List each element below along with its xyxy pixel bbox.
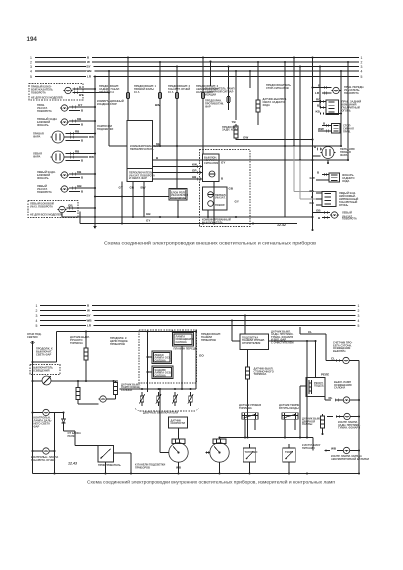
svg-text:RW: RW xyxy=(89,155,94,159)
dashed box: правый боковой указатель поворота xyxy=(29,84,83,101)
wire: GO label xyxy=(195,330,204,389)
connector: правый задний фонарь xyxy=(313,98,362,115)
combination switch box U1 xyxy=(127,121,159,182)
bus line 4 xyxy=(30,69,363,73)
svg-text:5: 5 xyxy=(36,324,38,328)
hazard switch box S2 xyxy=(203,154,226,182)
wire: BW output drop xyxy=(141,182,146,218)
svg-text:ПОВОРОТА: ПОВОРОТА xyxy=(342,217,357,221)
svg-text:GY: GY xyxy=(235,200,239,204)
dashed box: левый боковой указатель поворота xyxy=(28,201,78,218)
wire: lamp8 drop connector xyxy=(62,212,80,224)
label: к панели подсветки приборов xyxy=(135,463,165,470)
svg-text:ХОДА: ХОДА xyxy=(263,103,270,107)
svg-text:ОСВЕЩЕНИЯ: ОСВЕЩЕНИЯ xyxy=(32,368,50,372)
interior lamp box A (двойная рамка) xyxy=(173,333,198,351)
svg-text:АККУМУЛЯТОРНОЙ БАТАРЕИ: АККУМУЛЯТОРНОЙ БАТАРЕИ xyxy=(331,457,369,461)
lamp L8: левый боковой указатель xyxy=(58,203,96,212)
wire: KW to hazard switch xyxy=(153,163,203,168)
svg-text:ХОДА: ХОДА xyxy=(342,179,349,183)
svg-text:И СВЕТА ФАР: И СВЕТА ФАР xyxy=(129,176,147,180)
switch component: датчик выключатель света xyxy=(70,332,90,382)
svg-text:ПЛАФОН ПЕРЕДН.: ПЛАФОН ПЕРЕДН. xyxy=(174,347,198,351)
svg-text:Схема соединений электропровод: Схема соединений электропроводки внутрен… xyxy=(87,479,336,485)
bus line 3 xyxy=(30,65,363,69)
svg-text:ПОВОР.: ПОВОР. xyxy=(215,203,225,207)
svg-text:GO: GO xyxy=(199,354,204,358)
svg-text:ПОВОРОТА: ПОВОРОТА xyxy=(344,91,359,95)
reverse light switch component xyxy=(256,61,287,125)
svg-text:RL: RL xyxy=(329,396,333,400)
svg-text:СКОРОСТИ: СКОРОСТИ xyxy=(171,421,186,425)
svg-text:ТЕМП.: ТЕМП. xyxy=(285,450,293,454)
svg-text:ФАР: ФАР xyxy=(205,105,211,109)
svg-text:BW: BW xyxy=(155,103,160,107)
svg-text:GW: GW xyxy=(243,136,248,140)
svg-text:ОГНЕЙ 10 А: ОГНЕЙ 10 А xyxy=(99,90,114,94)
svg-text:GW: GW xyxy=(310,176,315,180)
wire: turn switch drop to rail xyxy=(207,210,209,218)
gray wire: vertical x=294 xyxy=(293,146,295,192)
svg-text:WB: WB xyxy=(87,69,93,73)
lamp: контрольная лампа аккумулятора WB xyxy=(324,447,369,461)
door switch 3 xyxy=(172,392,177,406)
svg-text:BY: BY xyxy=(79,93,83,97)
svg-text:5: 5 xyxy=(358,324,360,328)
bus line 5 xyxy=(36,324,360,328)
fuse label: предохранитель стоп-сигналов xyxy=(266,83,291,90)
gray wire: horizontal y=199 xyxy=(300,198,322,200)
svg-text:С ОЧИСТИТЕЛЕМ: С ОЧИСТИТЕЛЕМ xyxy=(271,340,294,344)
sender: датчик уровня топлива xyxy=(239,403,261,439)
svg-text:ФАРА: ФАРА xyxy=(340,153,348,157)
dashed box: комбинированный выключатель group xyxy=(200,150,251,227)
wire: B horizontal y=160 xyxy=(153,156,350,161)
svg-text:BY: BY xyxy=(87,65,91,69)
svg-text:RG: RG xyxy=(316,98,321,102)
door switch 4 xyxy=(188,392,193,406)
svg-text:КОНДЕНСАТОР: КОНДЕНСАТОР xyxy=(97,102,117,106)
svg-text:ТОПЛИВО: ТОПЛИВО xyxy=(245,450,258,454)
wire: x=63.5..75 links xyxy=(64,431,99,446)
svg-text:3: 3 xyxy=(30,65,32,69)
lamp L3: правый задний фонарь xyxy=(37,117,95,127)
svg-text:НЕ ДЛЯ ВСЕХ МОДЕЛЕЙ: НЕ ДЛЯ ВСЕХ МОДЕЛЕЙ xyxy=(30,212,62,216)
svg-text:WW: WW xyxy=(318,127,324,131)
svg-text:ПЕРЕКЛЮЧАТЕЛЬ: ПЕРЕКЛЮЧАТЕЛЬ xyxy=(130,147,154,151)
lamp: контрольная лампа RL xyxy=(325,396,359,403)
svg-text:3: 3 xyxy=(358,314,360,318)
rheostat: подсветка приборов xyxy=(33,376,119,385)
svg-text:СВЕТА ФАР: СВЕТА ФАР xyxy=(36,353,52,357)
svg-text:2: 2 xyxy=(36,309,38,313)
wire: rail GB y=217 xyxy=(62,212,313,218)
headlight L: левая фара xyxy=(33,150,95,163)
svg-text:ПРИКУРИВАТЕЛЬ: ПРИКУРИВАТЕЛЬ xyxy=(98,463,121,467)
svg-text:W: W xyxy=(87,309,90,313)
svg-text:ПИТАНИЯ: ПИТАНИЯ xyxy=(302,446,315,450)
dashed box: выключатель освещения xyxy=(30,365,60,375)
bus line 2 xyxy=(36,309,360,313)
svg-text:ЗАДН. ХОДА: ЗАДН. ХОДА xyxy=(222,128,238,132)
meter: указатель топлива xyxy=(243,444,257,475)
svg-text:РЕЛЕ: РЕЛЕ xyxy=(68,434,75,438)
svg-text:12.43: 12.43 xyxy=(68,462,77,466)
wire: vertical x=300 upper xyxy=(299,65,301,160)
bus line 3 xyxy=(36,314,360,318)
svg-text:ДВЕРНЫЕ ВЫКЛЮЧАТЕЛИ: ДВЕРНЫЕ ВЫКЛЮЧАТЕЛИ xyxy=(143,411,178,415)
label: коммутационный конденсатор xyxy=(97,99,124,106)
svg-text:WB: WB xyxy=(87,319,93,323)
svg-text:САЛОНА: САЛОНА xyxy=(334,386,345,390)
svg-text:5: 5 xyxy=(361,75,363,79)
wire: drop x=128 with fuse F1 xyxy=(127,56,130,120)
svg-text:СТОП-СИГНАЛОВ: СТОП-СИГНАЛОВ xyxy=(266,86,289,90)
svg-text:2: 2 xyxy=(30,60,32,64)
speed sensor label box xyxy=(169,417,188,439)
svg-text:ПОВОРОТА: ПОВОРОТА xyxy=(37,190,52,194)
svg-text:ЛАМПЫ: ЛАМПЫ xyxy=(302,422,313,426)
lamp L2: правый указатель поворота xyxy=(37,103,95,113)
svg-text:ГАБАРИТН. ОГНЕЙ: ГАБАРИТН. ОГНЕЙ xyxy=(31,458,55,462)
lamp: левый передний указатель поворота xyxy=(313,209,357,221)
svg-text:РАТУРЫ ВОДЫ: РАТУРЫ ВОДЫ xyxy=(279,406,299,410)
svg-text:ВЫКЛЮЧ.: ВЫКЛЮЧ. xyxy=(333,349,346,353)
door switch 2 xyxy=(156,392,161,406)
svg-text:GY: GY xyxy=(221,161,225,165)
svg-text:СИГНАЛИЗ.: СИГНАЛИЗ. xyxy=(204,161,219,165)
lamp: контрольная лампа габаритов xyxy=(31,448,58,462)
wire: drop x=177 with fuse F3 xyxy=(176,65,179,188)
svg-text:ПОВОРОТА: ПОВОРОТА xyxy=(171,196,186,200)
wire: L-route top of bottom diagram xyxy=(33,330,197,362)
label: продолжение к выключателю xyxy=(36,347,53,357)
meter: указатель температуры xyxy=(283,444,295,475)
svg-text:2: 2 xyxy=(361,60,363,64)
wire: vertical x=285 xyxy=(284,61,286,217)
svg-text:ФАР: ФАР xyxy=(34,425,40,429)
label: огни подсветки xyxy=(27,332,42,339)
wire: drop x=228.5 with fuse xyxy=(227,65,230,110)
svg-text:KW: KW xyxy=(192,163,197,167)
dashed group: лампы салона xyxy=(139,330,197,383)
wires: interior lamp links xyxy=(146,332,183,393)
label: выключатель ламп аварийной сигнализации xyxy=(205,87,235,97)
wire: bottom rail xyxy=(33,472,361,474)
svg-text:4: 4 xyxy=(358,319,360,323)
wire: rail GY y=223.5 xyxy=(80,219,297,225)
svg-text:ТОРМОЗА: ТОРМОЗА xyxy=(70,341,83,345)
gray wire: horizontal y=191.5 xyxy=(294,191,322,193)
svg-text:4: 4 xyxy=(361,69,363,73)
svg-text:ЛЕВЫЙ: ЛЕВЫЙ xyxy=(342,211,352,215)
svg-text:ИЗАЦИИ: ИЗАЦИИ xyxy=(205,93,216,97)
headlight: передняя правая фара xyxy=(313,145,355,164)
svg-text:4: 4 xyxy=(30,69,32,73)
label: датчик включения заднего противотуманного фонаря xyxy=(271,330,294,345)
bus line 2 xyxy=(30,60,363,64)
lamp L6: левый задний фонарь xyxy=(37,170,95,180)
svg-text:GY: GY xyxy=(146,219,150,223)
svg-text:УКАЗ. ПОВОРОТА: УКАЗ. ПОВОРОТА xyxy=(30,205,53,209)
connector: стоп-сигнал правый xyxy=(318,122,354,134)
wire: vertical x=307 xyxy=(306,341,308,438)
wire: horizontal y=437.5 xyxy=(218,436,313,450)
wire: GW horizontal y=139.5 xyxy=(236,136,314,141)
svg-text:САЛОНА: САЛОНА xyxy=(155,373,166,377)
svg-text:САЛОНА: САЛОНА xyxy=(176,340,187,344)
wire: vertical x=294 upper xyxy=(293,56,295,146)
bus line 4 xyxy=(36,319,360,323)
junction dots: left column xyxy=(94,70,110,209)
wire: x=54.5 vertical xyxy=(53,413,63,475)
relay box: прикуриватель xyxy=(98,446,131,475)
svg-text:RW: RW xyxy=(89,135,94,139)
door switch 1 xyxy=(139,392,144,406)
sender: датчик температуры xyxy=(279,403,300,439)
fuse label: предохранитель задних габаритов xyxy=(99,84,120,94)
svg-text:BW: BW xyxy=(141,186,146,190)
component: датчик ручного тормоза C5 xyxy=(246,350,274,438)
lamp: подсветка замка зажигания xyxy=(78,396,116,404)
wire: mid horizontal y=196.5 xyxy=(94,195,169,197)
wire: left collector vertical xyxy=(94,77,96,227)
svg-text:ОТОПИТЕЛЕМ: ОТОПИТЕЛЕМ xyxy=(242,341,260,345)
wire: GY output drop xyxy=(119,182,124,225)
svg-text:ПРАВ.: ПРАВ. xyxy=(343,130,351,134)
svg-text:GY: GY xyxy=(119,186,123,190)
svg-text:W: W xyxy=(87,60,90,64)
rheostat box: реостат подсветки xyxy=(300,340,329,438)
svg-text:194: 194 xyxy=(27,36,38,43)
wire: drop x=250 with fuse xyxy=(249,70,251,88)
fuse label: предохранитель аварийной сигнализации xyxy=(196,84,220,94)
lamp: контрольная лампа задних противотуманных xyxy=(327,413,361,429)
ground: left collector xyxy=(93,226,97,229)
svg-text:СВЕТКИ: СВЕТКИ xyxy=(27,335,38,339)
svg-text:ПРИБОРОВ: ПРИБОРОВ xyxy=(110,342,125,346)
svg-text:WB: WB xyxy=(176,466,182,470)
svg-text:ПРИБОРОВ: ПРИБОРОВ xyxy=(135,465,150,469)
bus line 1 (top) xyxy=(30,56,363,60)
svg-text:CL: CL xyxy=(308,330,312,334)
lamp: подсветка одометра xyxy=(342,357,360,363)
svg-text:1: 1 xyxy=(361,56,363,60)
svg-text:Схема соединений электропровод: Схема соединений электропроводки внешних… xyxy=(104,239,317,245)
svg-text:РЕЛЕ: РЕЛЕ xyxy=(321,373,329,377)
wire: left vertical x=32.5 xyxy=(31,341,34,474)
gauge: тахометр xyxy=(206,438,229,475)
svg-text:ФОНАРЬ: ФОНАРЬ xyxy=(37,176,49,180)
fog lamp relay component YB xyxy=(222,70,239,140)
svg-text:ТОРМОЗА: ТОРМОЗА xyxy=(254,372,267,376)
svg-text:ПОДСВ.: ПОДСВ. xyxy=(314,384,324,388)
gauge: спидометр xyxy=(159,388,188,475)
label: предохранитель панели приборов xyxy=(201,332,221,342)
wire: KB horizontal y=146 xyxy=(153,142,343,147)
bus line 1 (bottom) xyxy=(36,304,360,308)
diode component xyxy=(62,411,81,437)
label: дверные выключатели xyxy=(135,409,199,415)
label: выключатель ламп освещения салона xyxy=(334,380,352,390)
fuse label: предохранитель габаритов xyxy=(168,84,191,94)
fuse label: предохранитель фар xyxy=(134,84,157,94)
svg-text:RG: RG xyxy=(310,189,315,193)
svg-text:ФАРА: ФАРА xyxy=(33,134,41,138)
svg-text:2: 2 xyxy=(358,309,360,313)
svg-text:ФАРА: ФАРА xyxy=(33,154,41,158)
wire: vertical x=348 xyxy=(347,61,349,160)
svg-text:ОГОНЬ: ОГОНЬ xyxy=(339,203,348,207)
label: продолжение цепи подсветки xyxy=(110,336,129,346)
wire: drop x=203 with fuse F4 xyxy=(202,56,205,154)
wire: right edge vertical xyxy=(358,361,360,474)
wire: HB to hazard switch xyxy=(153,175,203,180)
svg-text:WB: WB xyxy=(331,447,337,451)
wire: drop x=210.5 xyxy=(209,60,211,86)
wire: vertical x=320 xyxy=(319,65,321,107)
turn signal switch box S3 xyxy=(203,187,239,211)
label: предохранитель противотуманных фар xyxy=(205,99,224,109)
svg-text:BY: BY xyxy=(87,314,91,318)
wire: vertical x=341 xyxy=(340,70,342,146)
lamp: контрольная лампа дальнего света xyxy=(33,409,55,428)
door switch sensor component xyxy=(114,381,141,400)
svg-text:ФОНАРЬ: ФОНАРЬ xyxy=(37,123,49,127)
svg-text:1: 1 xyxy=(358,304,360,308)
svg-text:3: 3 xyxy=(361,65,363,69)
label: лампочки подсветки xyxy=(97,124,113,131)
svg-text:5: 5 xyxy=(30,75,32,79)
heater control panel box xyxy=(231,314,316,349)
svg-text:CL: CL xyxy=(331,357,335,361)
svg-text:САЛОНА: САЛОНА xyxy=(121,388,132,392)
label: счетчик пробега xyxy=(333,341,353,353)
svg-text:1: 1 xyxy=(36,304,38,308)
interior lamp box B xyxy=(152,351,172,364)
component: датчик двери C6 xyxy=(302,414,325,435)
wire: GR to hazard switch xyxy=(153,169,203,174)
bus line 5 xyxy=(30,75,363,79)
wire: GB output drop xyxy=(130,182,135,219)
wire: door switch rail y=389 xyxy=(120,388,197,390)
lamp: правый фонарь указателя поворота xyxy=(313,84,365,96)
wire: hazard box drop to rail xyxy=(213,182,215,225)
gray wire: vertical x=300 xyxy=(299,160,301,199)
svg-text:ОГОНЬ: ОГОНЬ xyxy=(342,109,351,113)
headlight R: правая фара xyxy=(33,130,95,143)
wire: second collector vertical xyxy=(108,71,110,146)
lamp L7: левый указатель поворота xyxy=(37,184,95,194)
turn signal relay box xyxy=(169,189,188,219)
connector: фонарь заднего хода xyxy=(310,171,355,183)
svg-text:ПОВОРОТА: ПОВОРОТА xyxy=(37,109,52,113)
svg-text:САЛОНА: САЛОНА xyxy=(155,358,166,362)
svg-text:10 А: 10 А xyxy=(134,90,140,94)
label: источник питания xyxy=(302,443,321,450)
svg-text:10 А: 10 А xyxy=(168,90,174,94)
svg-text:ПРИБОРОВ: ПРИБОРОВ xyxy=(201,338,216,342)
svg-text:ПОВОРОТА: ПОВОРОТА xyxy=(31,91,46,95)
svg-text:ТУМАН. ФОНАРЯ: ТУМАН. ФОНАРЯ xyxy=(338,426,360,430)
svg-text:ПОДСВЕТКИ: ПОДСВЕТКИ xyxy=(97,127,113,131)
lamp L1: боковой указатель xyxy=(64,85,110,97)
wire: CL to одометр xyxy=(300,327,342,362)
wire: drop x=160 with fuse F2 xyxy=(155,61,162,146)
connector: правый задний комбинированный фонарь xyxy=(310,189,359,207)
svg-text:НЕ ДЛЯ ВСЕХ МОДЕЛЕЙ: НЕ ДЛЯ ВСЕХ МОДЕЛЕЙ xyxy=(31,95,63,99)
svg-text:УКАЗАТ.: УКАЗАТ. xyxy=(215,196,226,200)
svg-text:3: 3 xyxy=(36,314,38,318)
svg-text:1: 1 xyxy=(30,56,32,60)
wire: long vertical x=312.5 xyxy=(311,56,313,231)
svg-text:ТОПЛИВА: ТОПЛИВА xyxy=(239,406,252,410)
switch component: выключатель стоп-сигнала xyxy=(76,380,80,404)
svg-text:GY: GY xyxy=(78,103,82,107)
svg-text:4: 4 xyxy=(36,319,38,323)
interior lamp box C xyxy=(152,366,173,379)
